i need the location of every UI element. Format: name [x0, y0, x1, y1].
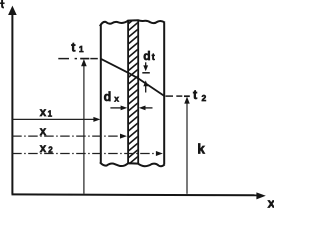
- layer boundary right (dx strip): [137, 20, 139, 164]
- svg-text:t: t: [152, 52, 155, 62]
- temperature gradient line: [101, 59, 164, 96]
- dt upper tick: [142, 72, 150, 74]
- svg-text:x: x: [268, 196, 274, 208]
- x-axis: [12, 193, 258, 196]
- x1 arrowhead: [93, 117, 100, 122]
- x arrowhead: [120, 134, 127, 139]
- t-axis arrowhead: [8, 6, 17, 15]
- svg-text:1: 1: [79, 44, 84, 54]
- svg-text:k: k: [197, 141, 205, 156]
- svg-text:2: 2: [202, 93, 207, 103]
- t2 tick: [184, 95, 190, 97]
- t2 level dash line: [166, 95, 183, 97]
- svg-text:x: x: [114, 93, 119, 103]
- svg-text:d: d: [143, 49, 150, 63]
- svg-text:1: 1: [48, 109, 53, 118]
- t-axis label t: [0, 0, 5, 7]
- x-axis arrowhead: [256, 192, 265, 199]
- svg-text:x: x: [40, 107, 47, 119]
- dt upper arrow (down): [145, 62, 147, 66]
- t1 tick: [80, 58, 89, 60]
- x dimension line (dash-dot): [12, 135, 121, 137]
- hatching of dx layer: [128, 16, 138, 172]
- t2 ordinate arrowhead: [184, 97, 189, 104]
- layer boundary left (dx strip): [127, 21, 129, 164]
- x2 arrowhead: [156, 151, 163, 156]
- t1 ordinate line: [83, 65, 85, 194]
- t1 level dash-dot line: [58, 58, 98, 60]
- t2 ordinate line (k): [186, 102, 188, 194]
- wall left face: [100, 25, 102, 163]
- svg-text:d: d: [104, 90, 112, 104]
- t1 ordinate arrowhead: [81, 59, 87, 66]
- wall top break line: [100, 20, 165, 26]
- x2 dimension line (dash-dot): [12, 153, 157, 155]
- t-axis: [11, 14, 13, 195]
- wall right face: [163, 23, 165, 165]
- wall bottom break line: [100, 162, 165, 166]
- dx arrow right: [145, 107, 153, 109]
- dx arrow left: [110, 107, 121, 109]
- dt lower arrow (up): [143, 80, 148, 86]
- x1 dimension line: [12, 118, 95, 120]
